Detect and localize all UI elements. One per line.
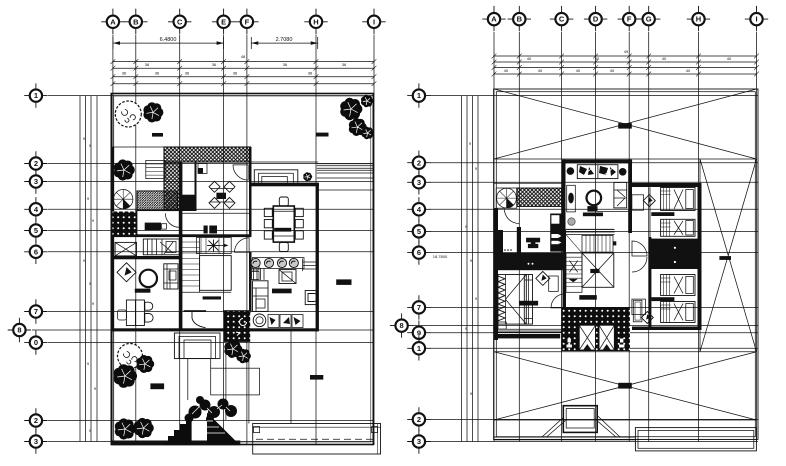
line hall top y213 <box>182 212 251 214</box>
svg-text:G: G <box>646 15 652 24</box>
gate rectangle bottom <box>253 424 381 455</box>
svg-text:8: 8 <box>400 321 404 330</box>
terrace crosshatch band vertical <box>164 162 180 211</box>
svg-text:2: 2 <box>417 415 421 424</box>
laundry row <box>253 314 303 328</box>
svg-text:40: 40 <box>662 56 667 61</box>
section marker <box>316 133 329 137</box>
door arc bath <box>165 213 179 227</box>
svg-text:7: 7 <box>417 303 421 312</box>
bedroom cabinet top <box>632 195 644 210</box>
wall: house bottom y330 <box>111 328 318 331</box>
closet x-box <box>115 242 136 256</box>
grid column C bubble <box>168 9 191 34</box>
study plant <box>568 218 575 225</box>
stair marker dash <box>579 295 597 300</box>
door arc hall top <box>235 238 250 253</box>
right vertical dimension chain lines <box>462 96 479 442</box>
svg-text:5: 5 <box>417 227 421 236</box>
grid row 1 bubble <box>24 83 47 107</box>
bed1 dark bar <box>651 212 674 216</box>
round table study <box>140 270 157 287</box>
svg-text:A: A <box>110 17 116 26</box>
wall: dining top y184 <box>250 183 319 187</box>
closet block right <box>550 214 564 252</box>
wall: dining/hall x250 <box>249 147 252 237</box>
grid row 6 bubble <box>24 240 47 264</box>
study pedestal <box>587 206 597 212</box>
section marker <box>203 296 221 299</box>
svg-text:A: A <box>491 15 497 24</box>
section marker <box>135 289 151 293</box>
svg-text:36: 36 <box>342 62 347 67</box>
kitchen counter with burners <box>251 258 304 269</box>
study desk <box>577 165 618 179</box>
study desk <box>118 300 145 326</box>
right plan boundary double <box>494 89 758 439</box>
planter diamond study <box>117 263 136 282</box>
grid row 8 bubble <box>8 318 31 342</box>
grid row 2 bubble <box>24 408 47 432</box>
grid row 1 bubble <box>407 336 430 360</box>
svg-text:3: 3 <box>34 437 38 446</box>
grid row 3 bubble <box>407 170 430 194</box>
bottom edge double line <box>494 437 636 440</box>
elevator car 1 <box>579 325 595 350</box>
stairwell void <box>200 256 232 291</box>
left grid column lines <box>113 35 374 446</box>
sink fixtures hall wall <box>252 262 260 270</box>
bedroom closet black band <box>649 239 698 269</box>
grid column I bubble <box>362 9 385 34</box>
black closet block hall <box>179 195 195 211</box>
bath black counter <box>145 223 161 231</box>
spiral stair ground <box>114 190 133 209</box>
door arc living to porch <box>233 165 248 180</box>
grid column B bubble <box>124 9 147 34</box>
svg-text:36: 36 <box>233 71 238 76</box>
wall: bath x136 <box>135 211 137 237</box>
svg-text:48: 48 <box>241 54 246 59</box>
stair diagonal guide <box>566 235 582 253</box>
grid column D bubble <box>584 6 607 31</box>
grid column H bubble <box>687 6 710 31</box>
section marker <box>336 279 351 285</box>
svg-text:7: 7 <box>34 307 38 316</box>
svg-text:1: 1 <box>34 91 38 100</box>
planter diamond bed2 <box>641 312 653 324</box>
svg-text:40: 40 <box>504 68 509 73</box>
wall: powder room right x195.5 <box>195 163 197 212</box>
bed 2b lower right <box>661 302 695 323</box>
dark bush right small <box>362 127 374 139</box>
bed 1b upper right <box>661 219 695 236</box>
left top dimension 2.7080 F-H <box>251 37 317 49</box>
elevator duct right <box>633 300 642 322</box>
bottom roof X brace <box>494 352 757 420</box>
kitchen shelf right <box>303 259 317 272</box>
svg-text:1: 1 <box>417 344 421 353</box>
bedroom right walls <box>632 183 702 187</box>
kitchen cabinet left <box>253 281 269 312</box>
svg-text:36: 36 <box>122 71 127 76</box>
svg-text:C: C <box>559 15 565 24</box>
left plan bottom thick sidewalk wall <box>111 441 240 446</box>
balcony crosshatch <box>517 188 562 207</box>
grid row 7 bubble <box>407 295 430 319</box>
grid row 6 bubble <box>407 240 430 264</box>
section marker <box>272 289 292 294</box>
right top dimension chain lines <box>494 56 757 74</box>
section marker <box>150 383 164 389</box>
svg-text:B: B <box>517 15 523 24</box>
closet niche dots <box>504 249 506 251</box>
dark bush walkway a <box>224 340 242 358</box>
wall: hall bottom y311 <box>184 310 207 312</box>
stair core left wall <box>563 230 567 307</box>
svg-text:40: 40 <box>727 56 732 61</box>
left top chain tick marks <box>111 59 377 86</box>
grid row 4 bubble <box>407 197 430 221</box>
master door arc <box>551 294 565 308</box>
svg-text:8: 8 <box>17 326 21 335</box>
svg-text:2: 2 <box>34 416 38 425</box>
closet block left <box>494 230 503 270</box>
winder stair top flight <box>197 238 232 254</box>
right roof strip X brace <box>700 159 757 352</box>
terrace diagonal hatch band lower <box>137 191 178 211</box>
grid column A bubble <box>482 6 505 31</box>
dining chairs <box>264 197 303 252</box>
left vertical dimension chain lines <box>80 96 97 442</box>
svg-text:3: 3 <box>34 177 38 186</box>
svg-text:2: 2 <box>34 159 38 168</box>
dark tree bottom-left b <box>134 418 154 438</box>
wall: stair-side vertical x179 <box>179 163 183 331</box>
svg-text:6: 6 <box>417 248 421 257</box>
svg-text:F: F <box>627 15 632 24</box>
svg-text:H: H <box>313 17 318 26</box>
svg-text:6: 6 <box>34 247 38 256</box>
dining table <box>273 206 294 242</box>
stair core top double lines <box>566 230 615 235</box>
svg-text:40: 40 <box>527 56 532 61</box>
svg-text:49: 49 <box>624 49 629 54</box>
entry dotted tile <box>224 311 250 342</box>
svg-text:40: 40 <box>686 68 691 73</box>
study room walls <box>562 160 633 164</box>
study round table <box>587 191 602 206</box>
bathroom dotted tile floor <box>113 212 136 236</box>
grid column C bubble <box>550 6 573 31</box>
master nightstand <box>498 322 506 329</box>
master bed <box>498 275 533 325</box>
dark tree bottom-left a <box>115 418 136 439</box>
planter diamond bed1 <box>643 195 655 207</box>
svg-text:H: H <box>696 15 701 24</box>
door arc entry <box>192 311 206 328</box>
section marker <box>152 133 163 137</box>
grid column G bubble <box>637 6 660 31</box>
left top dimension chain lines <box>113 62 374 84</box>
grid row 3 bubble <box>407 429 430 453</box>
svg-text:40: 40 <box>576 68 581 73</box>
svg-text:1: 1 <box>417 91 421 100</box>
terrace step lines top right <box>317 164 374 190</box>
svg-text:I: I <box>373 17 375 26</box>
svg-text:F: F <box>245 17 250 26</box>
tree scribble top-left <box>115 101 141 127</box>
wall: kitchen right x317 <box>316 183 319 331</box>
roof marker right <box>719 256 731 260</box>
bed2 dark bar <box>651 297 674 301</box>
terrace crosshatch band top <box>164 147 251 162</box>
grid row 1 bubble <box>407 83 430 107</box>
right top chain tick marks <box>492 54 759 77</box>
wall under closet row <box>113 256 180 259</box>
corridor floor lines <box>494 329 562 332</box>
stair flight upper-left <box>146 160 165 178</box>
svg-text:36: 36 <box>283 62 288 67</box>
grid column B bubble <box>508 6 531 31</box>
line y147 left segment <box>111 146 164 148</box>
grid column H bubble <box>304 9 327 34</box>
svg-text:9: 9 <box>417 328 421 337</box>
svg-text:40: 40 <box>538 68 543 73</box>
svg-text:3: 3 <box>417 178 421 187</box>
study cabinet right <box>614 182 627 208</box>
study chairs <box>145 302 153 322</box>
roof ridge marker top <box>618 123 632 129</box>
grid row 9 bubble <box>407 321 430 345</box>
corridor black band <box>494 253 565 271</box>
svg-text:36: 36 <box>145 62 150 67</box>
bedroom door arcs <box>632 241 647 256</box>
left wall thick upper floor <box>494 208 498 340</box>
grid column F bubble <box>618 6 641 31</box>
walkway lines <box>188 332 291 424</box>
svg-text:40: 40 <box>595 56 600 61</box>
grid row 4 bubble <box>24 197 47 221</box>
svg-text:D: D <box>593 15 599 24</box>
left top dimension 6.4800 A-E <box>113 37 224 49</box>
grid column A bubble <box>101 9 124 34</box>
grid column I bubble <box>745 6 768 31</box>
driveway ramp triangle right <box>207 413 239 445</box>
grid row 3 bubble <box>24 429 47 453</box>
breakfast table with diamond chairs <box>209 181 235 208</box>
stairwell X box <box>582 253 614 287</box>
dark tree top-right lower <box>349 118 367 136</box>
study cabinet left <box>567 185 576 212</box>
svg-text:36: 36 <box>155 71 160 76</box>
svg-text:E: E <box>221 17 226 26</box>
dark bush walkway b <box>237 349 251 364</box>
closet divider strip <box>517 227 521 253</box>
balcony top line <box>494 182 562 184</box>
kitchen cabinet left lines <box>254 268 265 280</box>
stair side return treads <box>566 253 582 292</box>
dark bush top-right small <box>361 95 373 107</box>
roof ridge marker bottom <box>618 383 632 389</box>
grid row 5 bubble <box>24 218 47 242</box>
corridor threshold black bar <box>494 334 561 338</box>
svg-text:0: 0 <box>34 338 38 347</box>
kitchen cabinet right <box>305 291 318 305</box>
winder top black blocks <box>204 226 218 234</box>
grid column F bubble <box>235 9 258 34</box>
svg-text:3: 3 <box>417 437 421 446</box>
door arc below spiral <box>504 208 520 224</box>
main stair treads <box>181 238 231 293</box>
elevator core icons <box>568 339 571 343</box>
skylight box <box>542 406 620 437</box>
grid row 3 bubble <box>24 169 47 193</box>
stair tread marker black <box>613 241 616 245</box>
dark bush top-left <box>143 102 163 122</box>
porch roof nested rects bottom <box>174 333 220 359</box>
plant cluster bottom center <box>189 406 202 419</box>
svg-text:6.4800: 6.4800 <box>160 37 177 43</box>
wardrobe cabinet <box>164 264 178 289</box>
grid row 2 bubble <box>24 151 47 175</box>
top roof X brace <box>494 89 757 159</box>
svg-text:C: C <box>177 17 183 26</box>
tree scribble lower-left <box>118 344 143 369</box>
elevator car 2 <box>599 325 614 350</box>
svg-text:I: I <box>755 15 757 24</box>
left plan site boundary <box>111 94 373 445</box>
dark tree lower-left <box>114 364 137 388</box>
porch nested rectangles <box>254 170 297 183</box>
yard step rectangle <box>211 368 260 395</box>
upper stair treads vertical <box>582 235 613 252</box>
grid row 0 bubble <box>24 330 47 354</box>
wall: study top y236 <box>111 234 251 237</box>
study stools <box>567 167 575 175</box>
grid row 5 bubble <box>407 219 430 243</box>
grid row 2 bubble <box>407 151 430 175</box>
dark bush lower-left <box>136 355 154 373</box>
left boundary wall thickening <box>111 147 114 332</box>
vanity icon <box>526 238 540 248</box>
grid row 2 bubble <box>407 407 430 431</box>
bedroom left wall <box>649 188 651 238</box>
svg-text:36: 36 <box>185 71 190 76</box>
svg-text:2.7080: 2.7080 <box>276 37 293 43</box>
spiral stair upper <box>496 188 517 208</box>
elevator core dotted block <box>561 307 630 351</box>
right grid row lines <box>413 96 758 442</box>
svg-text:B: B <box>133 17 139 26</box>
grid row 7 bubble <box>24 299 47 323</box>
bed 2a lower right <box>661 275 695 296</box>
bed 1a upper right <box>661 188 695 211</box>
bottom balcony rect <box>635 428 756 451</box>
svg-text:5: 5 <box>34 226 38 235</box>
bedroom cabinet bottom <box>632 299 646 315</box>
dresser with items <box>143 239 179 255</box>
dark tree mid-left <box>114 159 135 180</box>
grid column E bubble <box>212 9 235 34</box>
planter diamond master <box>536 271 550 285</box>
kitchen sink box <box>279 270 296 284</box>
master dark bar <box>519 301 538 306</box>
master side table <box>549 276 559 291</box>
master bed pillows zigzag <box>498 276 505 321</box>
dark tree top-right big <box>340 98 362 120</box>
svg-text:40: 40 <box>610 68 615 73</box>
section marker <box>310 375 323 380</box>
grid row 8 bubble <box>390 313 413 337</box>
svg-text:18.7800: 18.7800 <box>433 254 448 259</box>
right grid column lines <box>494 32 757 442</box>
left grid row lines <box>32 96 374 442</box>
svg-text:2: 2 <box>417 158 421 167</box>
svg-text:36: 36 <box>212 62 217 67</box>
powder room fixture <box>198 164 207 174</box>
svg-text:36: 36 <box>308 71 313 76</box>
driveway ramp triangle left <box>161 413 192 445</box>
line porch top <box>251 161 318 163</box>
shrub at porch <box>303 172 312 181</box>
